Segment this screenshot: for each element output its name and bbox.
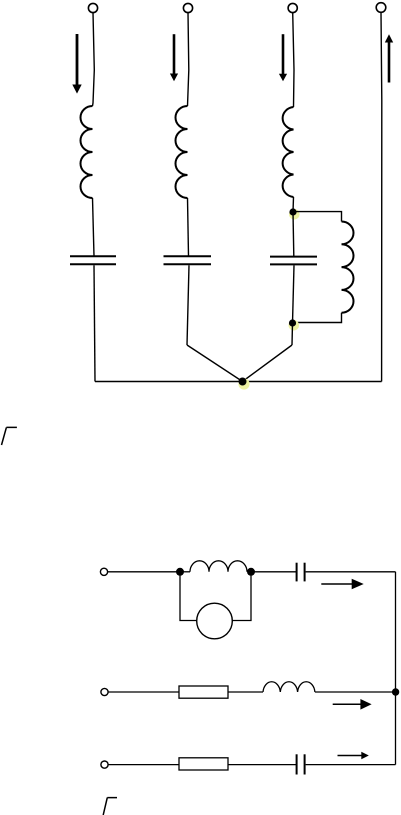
label gamma 1 xyxy=(2,427,17,445)
arrow I1 down xyxy=(72,34,81,94)
capacitor C4 xyxy=(297,563,305,582)
node N2 xyxy=(247,568,255,576)
wire row2 left xyxy=(108,691,179,693)
resistor R1 xyxy=(179,686,228,698)
arrow I2 down xyxy=(170,34,178,81)
wire C3 to node B xyxy=(293,265,295,323)
wire motor left leg xyxy=(180,572,197,621)
inductor L5 xyxy=(190,561,247,572)
terminal 1 xyxy=(88,3,97,12)
terminal 7 xyxy=(101,761,108,768)
wire row3 left xyxy=(108,764,179,766)
node A xyxy=(289,208,296,215)
junction node N xyxy=(239,378,247,386)
junction N highlight xyxy=(238,378,249,389)
resistor R2 xyxy=(179,758,228,770)
label gamma 2 xyxy=(103,798,117,815)
capacitor C5 xyxy=(297,754,305,774)
wire branch1 top xyxy=(93,13,95,106)
wire R2 to C5 xyxy=(228,764,296,766)
wire L2 to C2 xyxy=(188,198,189,256)
wire branch3 top xyxy=(293,13,294,107)
wire C5 to right bus xyxy=(306,764,396,766)
terminal 4 xyxy=(376,3,386,13)
bottom bus wire xyxy=(95,381,382,383)
wire R1 to L6 xyxy=(228,691,263,693)
arrow I5 right xyxy=(321,579,363,590)
wire C4 to right bus xyxy=(306,571,396,573)
terminal 3 xyxy=(288,3,297,12)
wire branch4 xyxy=(380,12,383,381)
wire L4 bottom to node B xyxy=(293,313,342,323)
right bus wire xyxy=(395,572,397,765)
motor M1 xyxy=(197,603,233,639)
capacitor C1 xyxy=(70,256,116,264)
node B highlight xyxy=(289,320,300,331)
inductor L4 (parallel) xyxy=(342,222,354,313)
arrow I3 down xyxy=(279,34,287,81)
wire N2 to C4 xyxy=(251,571,296,573)
wire branch2 top xyxy=(188,13,189,106)
wire node A to L4 top xyxy=(293,212,342,222)
wire row1 left xyxy=(108,571,180,573)
terminal 6 xyxy=(101,688,108,695)
arrow I6 right xyxy=(333,699,372,710)
wire diagonal branch2 to junction xyxy=(187,345,243,382)
wire node A to C3 xyxy=(292,212,295,256)
inductor L3 xyxy=(283,107,294,197)
node B xyxy=(289,319,296,326)
node A highlight xyxy=(289,209,300,220)
arrow I4 up xyxy=(385,34,393,82)
wire C2 down xyxy=(187,265,189,345)
terminal 2 xyxy=(183,3,192,12)
capacitor C3 xyxy=(270,257,317,265)
wire L3 to node A xyxy=(292,197,295,212)
capacitor C2 xyxy=(164,256,212,264)
inductor L6 xyxy=(263,682,315,692)
node N1 xyxy=(176,568,184,576)
wire L6 to junction xyxy=(315,691,396,693)
wire node B down xyxy=(291,323,294,345)
wire diagonal branch3 to junction xyxy=(243,345,293,382)
wire N1 to L5 xyxy=(180,571,190,573)
terminal 5 xyxy=(100,568,107,575)
junction node N3 xyxy=(392,688,399,695)
wire L1 to C1 xyxy=(93,198,95,256)
wire motor right leg xyxy=(232,572,251,621)
inductor L1 xyxy=(81,106,93,198)
inductor L2 xyxy=(176,106,188,198)
wire C1 to bottom bus xyxy=(94,265,95,381)
arrow I7 right xyxy=(338,752,369,760)
